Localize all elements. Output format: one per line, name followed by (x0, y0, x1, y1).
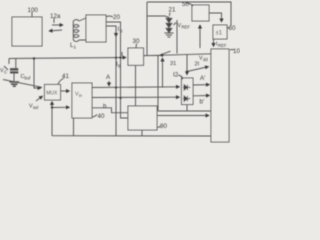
svg-text:60: 60 (229, 25, 236, 32)
svg-text:±1: ±1 (216, 31, 223, 37)
svg-text:21: 21 (169, 7, 176, 14)
svg-text:30: 30 (133, 38, 140, 45)
svg-text:MUX: MUX (46, 91, 58, 97)
svg-text:REF: REF (182, 25, 191, 30)
svg-text:b: b (103, 103, 107, 110)
svg-text:50: 50 (182, 1, 189, 8)
svg-text:S: S (120, 29, 123, 34)
svg-text:100: 100 (28, 7, 39, 14)
svg-text:1: 1 (74, 45, 77, 50)
svg-text:80: 80 (160, 123, 167, 130)
svg-text:41: 41 (62, 73, 69, 80)
svg-text:20: 20 (113, 14, 120, 21)
svg-text:40: 40 (98, 113, 105, 120)
svg-text:sel: sel (33, 105, 38, 110)
svg-text:2I: 2I (195, 62, 200, 68)
svg-text:C: C (4, 70, 7, 75)
svg-text:B: B (118, 64, 121, 69)
svg-text:dd: dd (203, 57, 208, 62)
svg-text:REF: REF (218, 43, 227, 48)
svg-text:10: 10 (233, 48, 240, 55)
svg-text:buf: buf (25, 76, 32, 81)
svg-text:I2: I2 (173, 72, 179, 79)
svg-text:b': b' (200, 99, 205, 106)
svg-text:31: 31 (170, 61, 176, 67)
svg-text:A': A' (200, 75, 205, 82)
svg-text:12a: 12a (50, 13, 61, 20)
